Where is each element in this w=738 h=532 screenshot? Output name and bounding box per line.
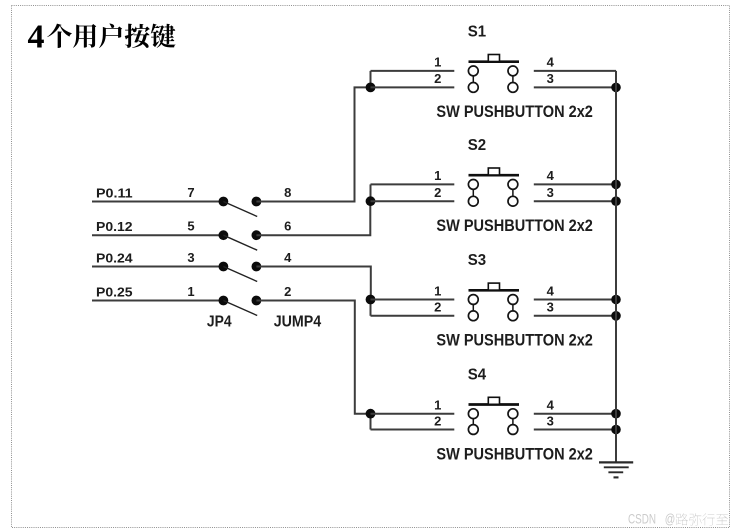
wire P0.24 to JP4 pin 3 (92, 266, 223, 268)
wire S4 pin1-pin2 left link (370, 414, 372, 430)
svg-text:4: 4 (547, 55, 555, 70)
pushbutton S2 button cap (488, 168, 499, 175)
pushbutton S3 actuator bar (469, 289, 520, 292)
wire JP4 pin 4 to S3 (net row3) (256, 267, 370, 300)
svg-text:SW PUSHBUTTON 2x2: SW PUSHBUTTON 2x2 (436, 217, 593, 235)
wire S2 pin 3 stub to GND rail (534, 200, 616, 202)
svg-text:6: 6 (284, 219, 291, 234)
junction dot S3 left (366, 295, 376, 305)
junction dot S2 pin 3 on GND rail (611, 196, 621, 206)
wire P0.25 to JP4 pin 1 (92, 300, 223, 302)
svg-text:1: 1 (187, 284, 194, 299)
svg-text:JUMP4: JUMP4 (274, 313, 322, 330)
JP4 pin 7 pad dot (219, 197, 229, 207)
S2 left contact circles (468, 180, 478, 207)
wire S2 pin1-pin2 left link (370, 184, 372, 201)
svg-text:1: 1 (434, 168, 441, 183)
JP4 pin 5 pad dot (219, 230, 229, 240)
svg-text:2: 2 (284, 284, 291, 299)
JP4 pin 8 pad dot (252, 197, 262, 207)
wire P0.11 to JP4 pin 7 (92, 201, 223, 203)
junction dot S4 pin 3 on GND rail (611, 425, 621, 435)
svg-text:3: 3 (547, 413, 554, 428)
wire S1 pin1-pin2 left link (370, 71, 372, 88)
jumper JP4 open contact row 3 (223, 267, 257, 282)
wire S2 pin 4 stub to GND rail (534, 183, 616, 185)
wire S4 pin 1 stub (371, 413, 455, 415)
S4 left contact circles (468, 409, 478, 435)
S2 right contact circles (508, 180, 518, 207)
junction dot S3 pin 3 on GND rail (611, 311, 621, 321)
wire S3 pin1-pin2 left link (370, 300, 372, 316)
jumper JP4 open contact row 2 (223, 235, 257, 250)
wire S3 pin 1 stub (371, 299, 455, 301)
S1 left contact circles (468, 66, 478, 92)
svg-text:5: 5 (187, 219, 194, 234)
JP4 pin 6 pad dot (252, 230, 262, 240)
pushbutton S1 actuator bar (469, 60, 520, 63)
wire S2 pin 1 stub (371, 183, 455, 185)
svg-text:3: 3 (547, 300, 554, 315)
svg-text:1: 1 (434, 283, 441, 298)
svg-text:2: 2 (434, 71, 441, 86)
wire S3 pin 3 stub to GND rail (534, 315, 616, 317)
svg-text:S3: S3 (468, 252, 486, 269)
pushbutton S4 actuator bar (469, 403, 520, 406)
junction dot S2 pin 4 on GND rail (611, 180, 621, 190)
svg-text:S4: S4 (468, 366, 486, 383)
ground symbol (599, 462, 633, 477)
watermark CSDN @路弥行至 (628, 512, 728, 527)
wire S4 pin 2 stub (371, 429, 455, 431)
wire S3 pin 4 stub to GND rail (534, 299, 616, 301)
svg-text:S2: S2 (468, 137, 486, 154)
wire S1 pin 4 stub to GND rail (534, 70, 616, 72)
JP4 pin 3 pad dot (219, 262, 229, 272)
junction dot S1 left (366, 83, 376, 93)
svg-text:1: 1 (434, 55, 441, 70)
title: 4个用户按键 (28, 19, 176, 56)
svg-text:P0.25: P0.25 (96, 284, 133, 299)
junction dot S4 left (366, 409, 376, 419)
wire GND rail (615, 71, 617, 462)
pushbutton S4 button cap (488, 397, 499, 404)
wire JP4 pin 8 to S1 (net row1) (256, 87, 370, 201)
svg-text:SW PUSHBUTTON 2x2: SW PUSHBUTTON 2x2 (436, 332, 593, 350)
svg-text:JP4: JP4 (207, 313, 232, 330)
S3 left contact circles (468, 295, 478, 321)
wire S3 pin 2 stub (371, 315, 455, 317)
junction dot S4 pin 4 on GND rail (611, 409, 621, 419)
svg-text:P0.24: P0.24 (96, 250, 133, 265)
pushbutton S3 button cap (488, 283, 499, 290)
junction dot S2 left (366, 196, 376, 206)
wire P0.12 to JP4 pin 5 (92, 234, 223, 236)
svg-text:SW PUSHBUTTON 2x2: SW PUSHBUTTON 2x2 (436, 103, 593, 121)
svg-text:3: 3 (547, 185, 554, 200)
S1 right contact circles (508, 66, 518, 92)
svg-text:4: 4 (284, 250, 292, 265)
wire S1 pin 2 stub (371, 86, 455, 88)
junction dot S3 pin 4 on GND rail (611, 295, 621, 305)
wire S1 pin 3 stub to GND rail (534, 86, 616, 88)
junction dot S1 pin 3 on GND rail (611, 83, 621, 93)
svg-text:SW PUSHBUTTON 2x2: SW PUSHBUTTON 2x2 (436, 445, 593, 463)
svg-text:CSDN: CSDN (628, 512, 656, 527)
JP4 pin 1 pad dot (219, 296, 229, 306)
svg-text:P0.12: P0.12 (96, 219, 133, 234)
svg-text:2: 2 (434, 185, 441, 200)
svg-text:S1: S1 (468, 24, 486, 41)
svg-text:P0.11: P0.11 (96, 185, 133, 200)
wire S1 pin 1 stub (371, 70, 455, 72)
svg-text:@: @ (665, 512, 676, 527)
svg-text:4: 4 (28, 19, 45, 56)
pushbutton S2 actuator bar (469, 174, 520, 177)
svg-text:2: 2 (434, 413, 441, 428)
svg-text:1: 1 (434, 398, 441, 413)
JP4 pin 2 pad dot (252, 296, 262, 306)
wire S4 pin 3 stub to GND rail (534, 429, 616, 431)
svg-text:3: 3 (547, 71, 554, 86)
wire JP4 pin 2 to S4 (net row4) (256, 301, 370, 414)
svg-text:3: 3 (187, 250, 194, 265)
wire S2 pin 2 stub (371, 200, 455, 202)
jumper JP4 open contact row 1 (223, 202, 257, 217)
wire JP4 pin 6 to S2 (net row2) (256, 201, 370, 235)
jumper JP4 open contact row 4 (223, 301, 257, 316)
svg-text:7: 7 (187, 185, 194, 200)
wire S4 pin 4 stub to GND rail (534, 413, 616, 415)
S4 right contact circles (508, 409, 518, 435)
svg-text:4: 4 (547, 283, 555, 298)
S3 right contact circles (508, 295, 518, 321)
svg-text:4: 4 (547, 398, 555, 413)
svg-text:2: 2 (434, 300, 441, 315)
svg-text:4: 4 (547, 168, 555, 183)
JP4 pin 4 pad dot (252, 262, 262, 272)
svg-text:8: 8 (284, 185, 291, 200)
pushbutton S1 button cap (488, 55, 499, 62)
